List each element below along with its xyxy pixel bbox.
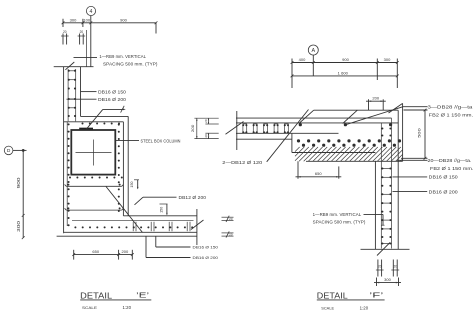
extension lines 650 F (298, 161, 339, 178)
extension lines 300 F (377, 278, 399, 287)
svg-text:650: 650 (92, 249, 100, 254)
wall dowel bars right pair (78, 30, 86, 44)
svg-text:3—DB28 //g—ta: 3—DB28 //g—ta (428, 104, 474, 109)
anchor bar leader E (86, 106, 126, 130)
svg-text:SCALE: SCALE (82, 305, 97, 310)
dim 200 wall top F (366, 95, 386, 102)
mini dim ext line top (194, 117, 218, 119)
footing outer bottom E (57, 235, 197, 237)
svg-text:STEEL BOX COLUMN: STEEL BOX COLUMN (141, 138, 181, 143)
wall tie rungs E (68, 71, 76, 108)
slab break slash F (226, 122, 244, 135)
svg-text:20: 20 (80, 30, 84, 34)
wall dowel bars F right (391, 260, 399, 277)
svg-text:200: 200 (372, 95, 380, 100)
svg-text:DB16 Ø 200: DB16 Ø 200 (429, 189, 459, 194)
mini dim ext line upper mid (205, 123, 218, 125)
title underline F (317, 299, 385, 301)
svg-text:DB16 Ø 200: DB16 Ø 200 (193, 255, 219, 260)
svg-text:500: 500 (417, 127, 422, 138)
plate top edge F (314, 109, 399, 111)
grid line D (13, 149, 27, 151)
svg-text:DB16 Ø 150: DB16 Ø 150 (98, 89, 127, 94)
wall rebar line right F (391, 118, 393, 248)
dimension line 2 F (291, 75, 399, 78)
dots row under box E (69, 177, 123, 179)
svg-text:20: 20 (229, 233, 233, 237)
footing stirrup ticks E (133, 222, 190, 231)
column top edge upper E (81, 115, 129, 117)
svg-text:2—DB12 Ø 120: 2—DB12 Ø 120 (222, 160, 263, 165)
wall rebar dots E (68, 70, 76, 117)
diagonal bent bar E (106, 187, 143, 233)
svg-text:’E’: ’E’ (136, 291, 150, 300)
svg-text:300: 300 (16, 220, 21, 232)
dim 500 F (417, 109, 427, 160)
svg-text:900: 900 (342, 57, 350, 62)
svg-text:900: 900 (16, 176, 21, 188)
bottom bars 20-DB28 dots (297, 139, 401, 147)
svg-text:300: 300 (384, 57, 392, 62)
svg-text:1:20: 1:20 (360, 305, 369, 310)
svg-text:DB16 Ø 150: DB16 Ø 150 (429, 175, 459, 180)
svg-text:150: 150 (130, 181, 134, 187)
leader 20-DB28 F (397, 159, 428, 161)
grid line 4 (90, 16, 92, 67)
svg-text:200: 200 (121, 249, 129, 254)
column top edge lower E (64, 121, 124, 123)
dim 150 lower E (159, 204, 167, 215)
node dot D (22, 149, 25, 152)
extension lines bottom E (74, 250, 133, 260)
svg-text:900: 900 (120, 17, 128, 22)
grid line A (312, 55, 314, 76)
cover mark bottom 20 E (222, 231, 234, 237)
svg-text:400: 400 (299, 57, 307, 62)
column left rebar line E (66, 122, 68, 226)
leader DB16 150 F (393, 176, 428, 178)
wall outer face E (63, 67, 65, 234)
wall rebar line right E (75, 69, 77, 121)
steel box column (71, 130, 115, 175)
tie bar line 2 E (65, 208, 124, 210)
slab stirrups F (243, 124, 288, 133)
svg-text:DETAIL: DETAIL (317, 290, 348, 300)
plate left slant F (299, 110, 314, 123)
grid bubble D (4, 146, 13, 155)
svg-text:DETAIL: DETAIL (80, 290, 112, 300)
wall top cut line E (54, 66, 94, 68)
svg-text:DB12 Ø 200: DB12 Ø 200 (179, 195, 207, 200)
svg-text:DB16 Ø 200: DB16 Ø 200 (98, 97, 127, 102)
extension lines 200 F (369, 99, 384, 110)
dim 650 F (296, 171, 342, 177)
svg-text:’F’: ’F’ (369, 291, 384, 300)
mini dim 20 lower (204, 133, 209, 138)
dim 300 bottom F (374, 277, 401, 283)
svg-text:20: 20 (204, 119, 208, 123)
dim 150 upper E (130, 180, 139, 190)
footing end hook slash E (191, 220, 204, 230)
wall inner face E (80, 67, 82, 117)
leader DB16 200 bottom E (146, 236, 191, 257)
slab top line 2 F (236, 122, 398, 124)
svg-text:20: 20 (229, 217, 233, 221)
svg-text:FB2 Ø 1 150 mm.: FB2 Ø 1 150 mm. (430, 166, 474, 171)
wall rebar line left E (67, 69, 69, 121)
svg-text:300: 300 (384, 277, 392, 282)
svg-text:D: D (7, 148, 11, 154)
leader DB12 200 E (135, 197, 177, 205)
hatch bottom boundary F (306, 160, 403, 162)
tie bar end dots 1 E (67, 184, 120, 186)
svg-text:DB16 Ø 150: DB16 Ø 150 (193, 245, 219, 250)
svg-text:100: 100 (83, 17, 91, 22)
extension line 100 dim (86, 30, 88, 67)
mini dim 20 upper (204, 118, 209, 124)
svg-text:300: 300 (70, 17, 78, 22)
svg-text:650: 650 (315, 171, 323, 176)
svg-text:A: A (311, 48, 315, 54)
wall bottom cut F (361, 248, 410, 250)
title underline E (80, 299, 151, 301)
leader 2-DB12 F (267, 110, 309, 162)
svg-text:150: 150 (159, 207, 163, 213)
extension lines top E (63, 19, 156, 34)
svg-text:20: 20 (393, 264, 397, 268)
svg-text:20: 20 (204, 134, 208, 138)
joint hatch F (295, 147, 403, 161)
footing bottom E (64, 231, 197, 233)
top bars 3-DB28 dots (299, 123, 393, 126)
leader DB16 150 E (81, 91, 97, 93)
leader 3-DB28 F (347, 107, 428, 125)
grid bubble 4 (86, 6, 95, 15)
slab stirrup dots F (242, 124, 289, 133)
wall tie rungs F (381, 169, 391, 244)
corner oblique edge F (389, 103, 403, 113)
slab bottom face F (236, 138, 292, 140)
column rebar dots top right E (82, 123, 121, 213)
svg-text:SPACING 500 mm. (TYP): SPACING 500 mm. (TYP) (103, 61, 158, 66)
slab cut end F (236, 111, 238, 150)
mini dim ext line bottom (194, 138, 218, 140)
svg-text:200: 200 (191, 125, 195, 133)
grid bubble A (308, 45, 318, 55)
center cross (76, 140, 112, 166)
column right outer line E (127, 116, 129, 215)
leader DB16 200 E (67, 98, 97, 100)
svg-text:20—DB28 //g—ta.: 20—DB28 //g—ta. (428, 158, 472, 163)
svg-text:1—RB9 mm. VERTICAL: 1—RB9 mm. VERTICAL (313, 212, 362, 217)
vertical dim line D (22, 150, 25, 239)
footing dots row E (74, 226, 193, 228)
footing top face E (123, 215, 196, 217)
wall dowel bars F left (376, 260, 384, 277)
svg-text:20: 20 (378, 264, 382, 268)
leader steel box (115, 139, 139, 141)
svg-text:1—RB9 mm. VERTICAL: 1—RB9 mm. VERTICAL (99, 54, 146, 59)
wall outer face F (397, 110, 399, 249)
cover mark top 20 E (222, 216, 234, 222)
svg-text:20: 20 (63, 30, 67, 34)
svg-text:SPACING 500 mm. (TYP): SPACING 500 mm. (TYP) (313, 220, 366, 225)
extension lines F dims (292, 59, 397, 89)
svg-text:SCALE: SCALE (321, 305, 334, 310)
svg-text:1 600: 1 600 (338, 70, 349, 75)
slab bottom rebar line F (236, 132, 339, 134)
svg-text:4: 4 (90, 9, 93, 15)
tie bar end dots 2 E (67, 207, 120, 209)
drop bottom F (292, 152, 376, 154)
extension lines 500 F (401, 110, 428, 158)
wall rebar dots F (381, 128, 391, 245)
column right face E (122, 122, 124, 216)
dimension line top E (62, 21, 158, 24)
leader DB16 200 F (393, 191, 428, 193)
splice plate E (79, 128, 93, 130)
slab top line 1 F (236, 117, 392, 119)
wall dowel bars left pair (61, 30, 69, 44)
plate mid slant F (343, 110, 358, 123)
leader RB9 F (364, 214, 385, 225)
wall break slash F (377, 243, 390, 256)
mini dim line 200 (191, 118, 197, 138)
outer corner edge F (402, 103, 404, 161)
dim line bottom E (72, 253, 133, 256)
column rebar dots left E (68, 123, 70, 226)
footing rebar line E (72, 220, 194, 222)
drop edge F (291, 134, 293, 153)
dimension line 1 F (291, 61, 399, 64)
tie bar line 1 E (65, 185, 124, 187)
svg-text:1:20: 1:20 (123, 305, 132, 310)
leader 1-RB9 E (65, 57, 97, 69)
wall rebar line left F (380, 123, 382, 249)
mini dim ext line lower mid (205, 132, 218, 134)
svg-text:FB2 Ø 1 150 mm.: FB2 Ø 1 150 mm. (429, 113, 474, 118)
wall inner face F (374, 161, 376, 249)
leader DB16 150 bottom E (156, 236, 191, 247)
footing right end E (196, 209, 198, 245)
